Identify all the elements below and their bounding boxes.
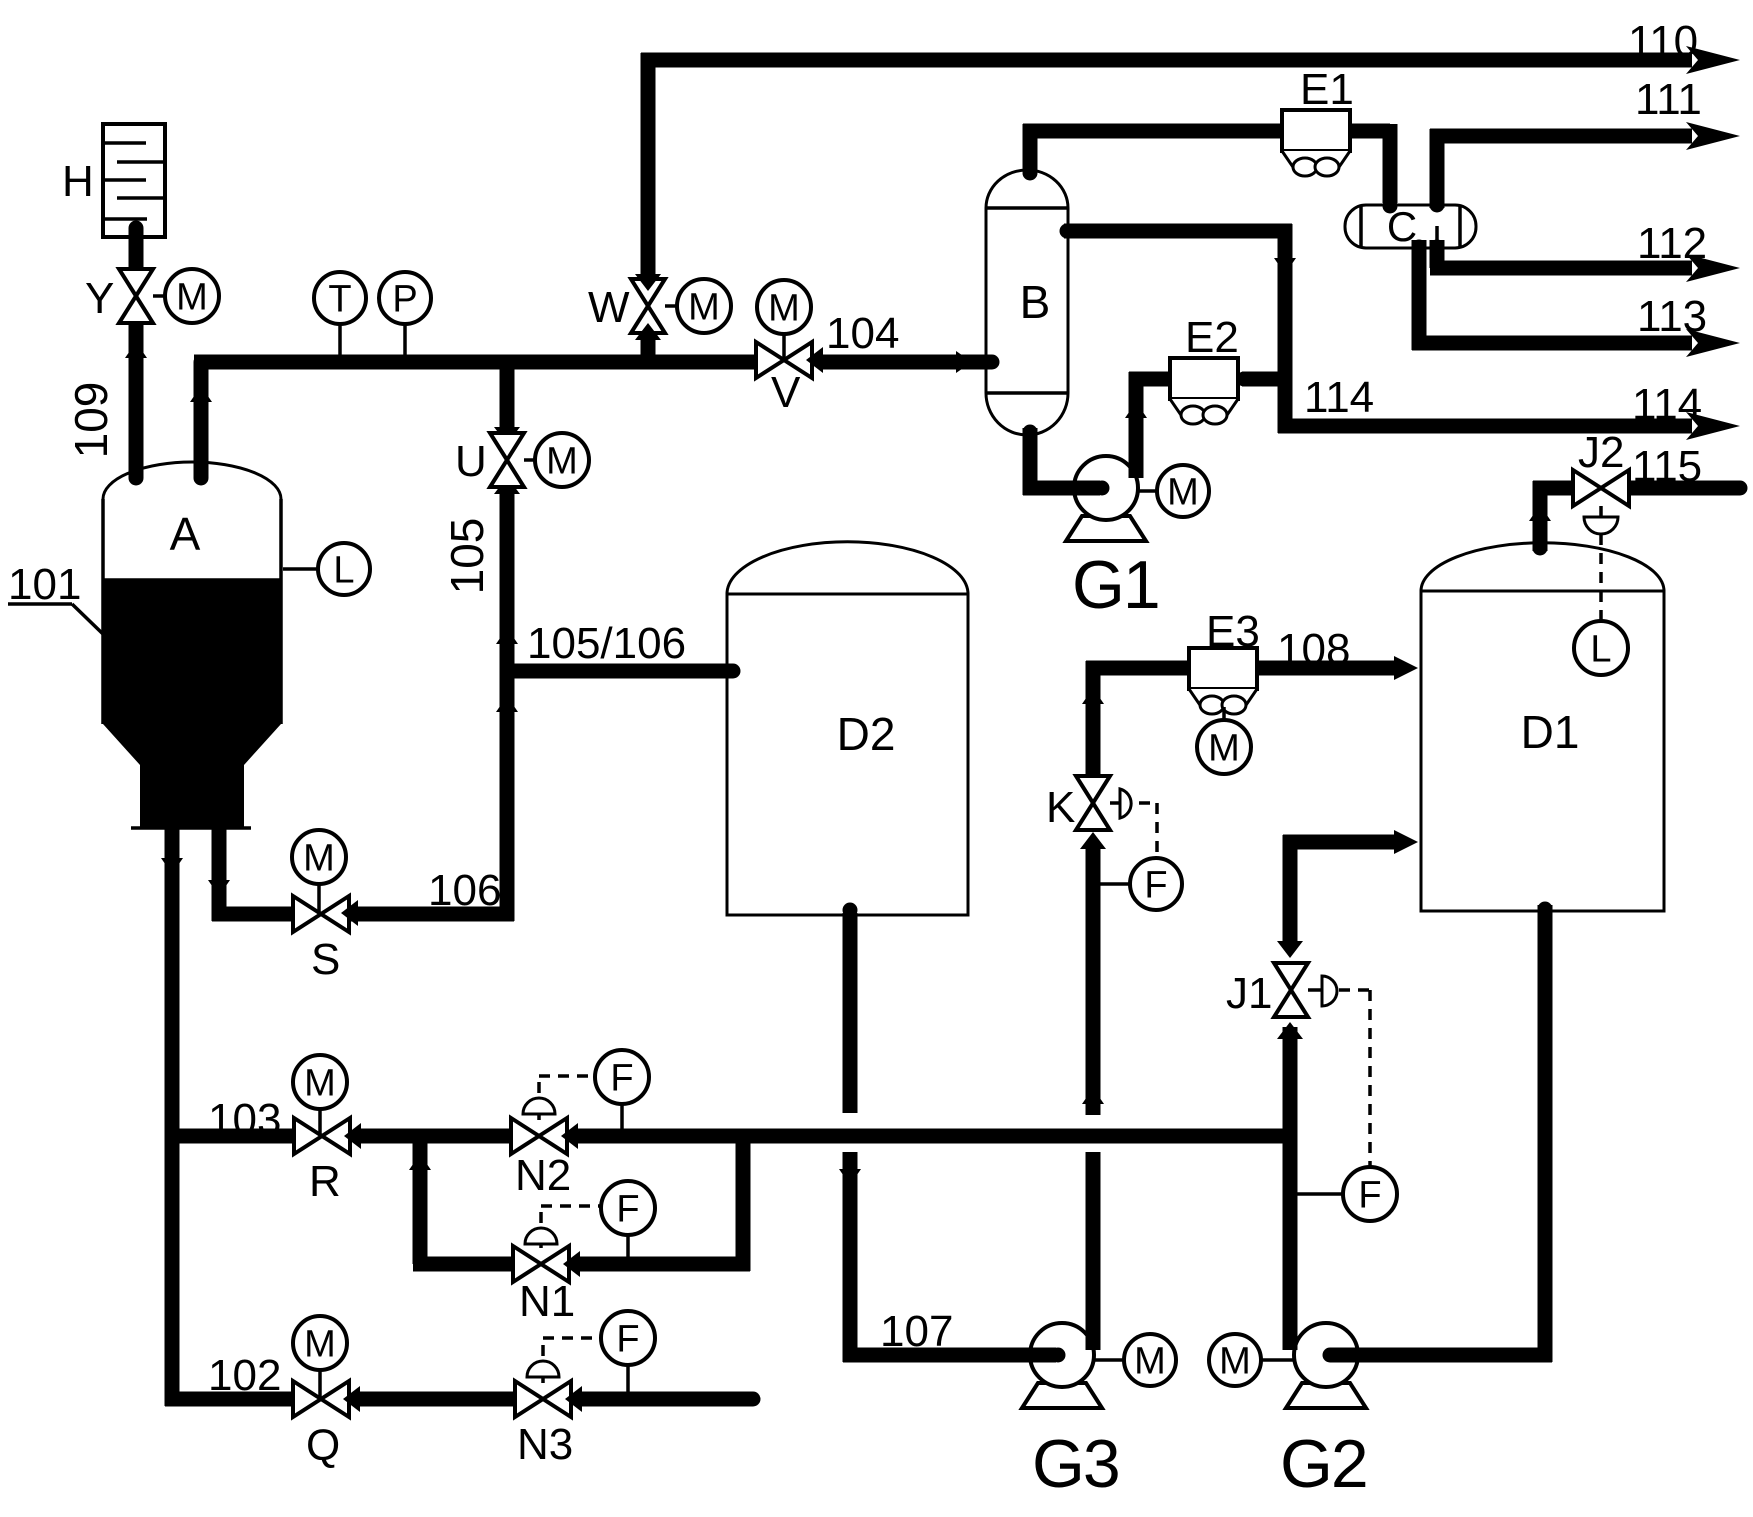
flow sensor F of K: [1100, 858, 1182, 910]
flow arrow up below line 103 gap: [1082, 1088, 1104, 1104]
svg-text:115: 115: [1632, 442, 1702, 491]
motor M of valve W: [665, 279, 731, 333]
pump G1: [1023, 456, 1146, 541]
line 115 from valve J2 to edge: [1622, 481, 1740, 496]
header pipe from valve V to column B: [823, 355, 992, 370]
flow arrow into column B: [956, 351, 972, 373]
svg-text:F: F: [616, 1319, 639, 1361]
svg-text:105/106: 105/106: [527, 619, 686, 668]
actuator dome of N2: [523, 1098, 555, 1120]
label 105: [441, 518, 493, 595]
svg-text:M: M: [176, 277, 208, 319]
label 114 left: [1304, 373, 1374, 422]
level sensor L on vessel A: [283, 543, 370, 595]
motor M of valve Y: [153, 269, 219, 323]
line 112 from drum C: [1430, 240, 1741, 283]
control link N1 to F: [541, 1206, 600, 1223]
pipe 106 from valve S to 105 riser: [350, 907, 514, 922]
pipe 102 from valve Q to valve N3: [360, 1392, 516, 1407]
label 103: [208, 1095, 281, 1144]
valve R: [294, 1118, 361, 1206]
valve J2: [1573, 470, 1629, 506]
svg-text:114: 114: [1304, 373, 1374, 422]
flow sensor F of N2: [595, 1050, 649, 1130]
arrow into valve K from below: [1080, 832, 1106, 849]
bypass line N1 right: [580, 1257, 750, 1272]
pipe from vessel A top to header: [194, 362, 209, 478]
label 114 right: [1632, 380, 1702, 429]
pipe 103 from drop pipe to valve R: [165, 1129, 294, 1144]
pipe 109 from hopper H to valve Y: [129, 228, 144, 275]
valve K: [1046, 776, 1110, 832]
motor M of valve V: [757, 280, 811, 360]
svg-text:V: V: [771, 368, 801, 417]
svg-text:T: T: [328, 279, 351, 321]
svg-text:Q: Q: [306, 1421, 340, 1470]
svg-text:113: 113: [1637, 292, 1707, 341]
svg-text:106: 106: [428, 866, 501, 915]
svg-text:112: 112: [1637, 219, 1707, 268]
svg-text:N3: N3: [517, 1420, 573, 1469]
svg-text:N2: N2: [515, 1151, 571, 1200]
label G1: [1072, 547, 1159, 623]
motor M of valve Q: [293, 1316, 347, 1399]
flow arrow on 105 lower: [496, 696, 518, 712]
svg-text:M: M: [304, 1063, 336, 1105]
flow arrow down on A outlet: [208, 880, 230, 896]
control link J2 to level sensor: [1599, 534, 1603, 620]
label 108: [1277, 625, 1350, 674]
flow arrow on A top pipe: [190, 386, 212, 402]
actuator horn of J1: [1308, 976, 1337, 1006]
pipe from column B right side: [1060, 224, 1293, 434]
pipe from D2 bottom (upper segment): [843, 903, 858, 1114]
vertical pipe 105 below valve U: [500, 484, 515, 921]
actuator dome of N3: [527, 1361, 559, 1383]
valve N3: [515, 1381, 582, 1469]
pump G2 suction from D1 bottom: [1340, 902, 1553, 1363]
control link N3 to F: [543, 1338, 600, 1356]
pipe 103 from valve R to valve N2: [361, 1129, 512, 1144]
flow arrow up on bypass downcomer: [409, 1154, 431, 1170]
svg-text:M: M: [688, 287, 720, 329]
svg-text:L: L: [333, 550, 354, 592]
arrow into valve U from above: [494, 427, 520, 444]
pump G2 discharge riser: [1283, 1027, 1298, 1334]
pipe 102 inlet stub right of N3: [582, 1392, 753, 1407]
svg-text:108: 108: [1277, 625, 1350, 674]
svg-text:105: 105: [441, 518, 493, 595]
header pipe from A to valve V: [194, 355, 757, 370]
svg-text:M: M: [1134, 1341, 1166, 1383]
label 107: [880, 1307, 953, 1356]
pump G3: [920, 1323, 1102, 1408]
svg-text:Y: Y: [85, 274, 114, 323]
svg-text:W: W: [588, 283, 630, 332]
motor M of E3: [1197, 707, 1251, 774]
flow arrow up to valve J2: [1529, 505, 1551, 521]
label 115: [1632, 442, 1702, 491]
svg-text:M: M: [1219, 1341, 1251, 1383]
pipe from column B top to E1: [1023, 124, 1296, 181]
svg-text:F: F: [616, 1189, 639, 1231]
pipe from D2 bottom to line 107 (lower segment): [843, 1152, 858, 1362]
valve S: [293, 896, 358, 984]
label 109: [65, 382, 117, 459]
actuator dome of N1: [525, 1228, 557, 1248]
pipe 103 from valve N2 to pump G2 riser: [578, 1129, 1297, 1144]
pipe from D1 side port to valve J1: [1283, 830, 1418, 942]
condenser E2: [1170, 313, 1239, 424]
label 106: [428, 866, 501, 915]
line 107 into pump G3: [843, 1348, 1054, 1363]
svg-text:M: M: [768, 288, 800, 330]
svg-text:M: M: [1208, 728, 1240, 770]
valve N2: [511, 1118, 578, 1200]
flow arrow down to line 107: [839, 1169, 861, 1185]
valve V: [756, 342, 823, 417]
svg-text:H: H: [62, 157, 94, 206]
pipe from A bottom down the left side: [165, 824, 180, 1406]
dip tube inside drum C: [1435, 226, 1439, 246]
pipe from pump G1 up to E2: [1129, 372, 1182, 479]
valve W: [588, 274, 665, 340]
svg-text:103: 103: [208, 1095, 281, 1144]
line 113 from drum C: [1412, 240, 1741, 358]
flow arrow up into E2: [1125, 402, 1147, 418]
svg-text:M: M: [546, 441, 578, 483]
motor M of valve S: [292, 830, 346, 914]
motor M of valve R: [293, 1055, 347, 1136]
bypass downcomer to N1 line: [413, 1129, 428, 1264]
svg-text:101: 101: [8, 560, 81, 609]
flow arrow down on left drop pipe: [161, 858, 183, 874]
arrow into valve J1 from below: [1277, 1022, 1303, 1039]
valve U: [455, 433, 524, 487]
condenser E1: [1282, 65, 1354, 176]
svg-text:111: 111: [1635, 75, 1702, 124]
pipe from valve K up to E3: [1086, 661, 1198, 782]
label 105/106: [527, 619, 686, 668]
label 102: [208, 1351, 281, 1400]
pipe 109 from valve Y down to vessel A: [129, 318, 144, 478]
svg-text:114: 114: [1632, 380, 1702, 429]
motor M of pump G1: [1137, 465, 1209, 517]
svg-text:P: P: [392, 279, 417, 321]
feed hopper H with baffles: [62, 124, 165, 237]
svg-text:A: A: [170, 508, 201, 560]
label G2: [1280, 1426, 1367, 1502]
svg-text:B: B: [1020, 276, 1051, 328]
control link K to F: [1139, 803, 1157, 856]
svg-text:G3: G3: [1032, 1426, 1119, 1502]
flow arrow on 105 upper: [496, 628, 518, 644]
arrow into valve U from below: [494, 477, 520, 494]
label 111: [1635, 75, 1702, 124]
vessel C (horizontal drum): [1345, 203, 1476, 250]
flow sensor F of N3: [601, 1311, 655, 1392]
pump G2: [1286, 1323, 1420, 1408]
pipe from D1 top to valve J2: [1533, 481, 1577, 556]
line 110 to arrow: [641, 46, 1740, 74]
svg-text:F: F: [610, 1058, 633, 1100]
arrow into valve J1 from above: [1277, 941, 1303, 958]
valve N1: [513, 1246, 580, 1326]
label 104: [826, 309, 899, 358]
svg-text:E2: E2: [1185, 313, 1239, 362]
control link J1 to F: [1339, 990, 1370, 1166]
label 112: [1637, 219, 1707, 268]
vertical pipe 105 header to valve U: [500, 355, 515, 430]
vessel D1: [1421, 543, 1664, 911]
control link N2 to F: [539, 1076, 594, 1093]
pipe 105/106 branch to vessel D2: [512, 664, 733, 679]
svg-text:U: U: [455, 437, 487, 486]
bypass line N1 left: [413, 1257, 514, 1272]
vessel D2: [727, 542, 968, 915]
flow arrow down on 114 riser: [1274, 258, 1296, 274]
level sensor L inside D1: [1574, 621, 1628, 675]
pump G3 discharge riser (lower segment): [1086, 1152, 1101, 1334]
pressure sensor P: [379, 272, 431, 356]
motor M of valve U: [524, 433, 589, 487]
pipe 102 from drop pipe to valve Q: [165, 1392, 294, 1407]
svg-text:104: 104: [826, 309, 899, 358]
pipe 108 from E3 to vessel D1: [1251, 656, 1418, 680]
flow sensor F of J1: [1297, 1167, 1397, 1221]
valve J1: [1226, 963, 1308, 1018]
riser from drum C to line 111: [1430, 129, 1445, 213]
svg-text:D2: D2: [837, 708, 896, 760]
reference 101 with leader: [8, 560, 103, 634]
svg-text:110: 110: [1628, 17, 1698, 66]
label 110: [1628, 17, 1698, 66]
bypass riser back to line 103: [736, 1129, 751, 1271]
svg-text:M: M: [1167, 472, 1199, 514]
line 111 to arrow: [1430, 122, 1740, 150]
pipe from column B bottom to pump G1: [1023, 425, 1110, 496]
branch pipe up to valve W: [641, 332, 656, 369]
pipe from E2 outlet to 114 riser: [1237, 372, 1290, 387]
flow arrow up above valve K: [1082, 688, 1104, 704]
svg-text:M: M: [303, 838, 335, 880]
svg-text:102: 102: [208, 1351, 281, 1400]
motor M of pump G2: [1209, 1334, 1295, 1386]
valve Y: [85, 269, 153, 323]
actuator horn of K: [1110, 789, 1131, 818]
svg-text:S: S: [311, 935, 340, 984]
svg-text:G1: G1: [1072, 547, 1159, 623]
actuator dome of J2: [1584, 506, 1618, 534]
svg-text:E1: E1: [1300, 65, 1354, 114]
svg-text:N1: N1: [519, 1277, 575, 1326]
vessel A (reactor with black solids): [103, 462, 281, 828]
pump G3 discharge riser (upper segment): [1086, 845, 1101, 1115]
svg-text:109: 109: [65, 382, 117, 459]
svg-text:D1: D1: [1521, 706, 1580, 758]
pipe from A bottom to valve S corner: [212, 824, 294, 921]
svg-text:G2: G2: [1280, 1426, 1367, 1502]
svg-text:R: R: [309, 1157, 341, 1206]
temperature sensor T: [314, 272, 366, 356]
flow arrow on pipe 109: [125, 342, 147, 358]
condenser E3: [1189, 607, 1260, 714]
label J2: [1578, 428, 1624, 477]
valve Q: [293, 1381, 360, 1470]
label 113: [1637, 292, 1707, 341]
pipe from valve W up to line 110: [641, 53, 656, 278]
vessel B (column): [986, 170, 1068, 435]
svg-text:K: K: [1046, 783, 1075, 832]
flow sensor F of N1: [601, 1181, 655, 1258]
svg-text:J1: J1: [1226, 969, 1272, 1018]
svg-text:J2: J2: [1578, 428, 1624, 477]
svg-text:L: L: [1590, 629, 1611, 671]
pipe from E1 to drum C: [1334, 124, 1398, 214]
motor M of pump G3: [1094, 1334, 1176, 1386]
svg-text:F: F: [1144, 865, 1167, 907]
svg-text:E3: E3: [1206, 607, 1260, 656]
line 114 to arrow: [1278, 412, 1740, 440]
svg-text:M: M: [304, 1324, 336, 1366]
svg-text:F: F: [1358, 1175, 1381, 1217]
label G3: [1032, 1426, 1119, 1502]
